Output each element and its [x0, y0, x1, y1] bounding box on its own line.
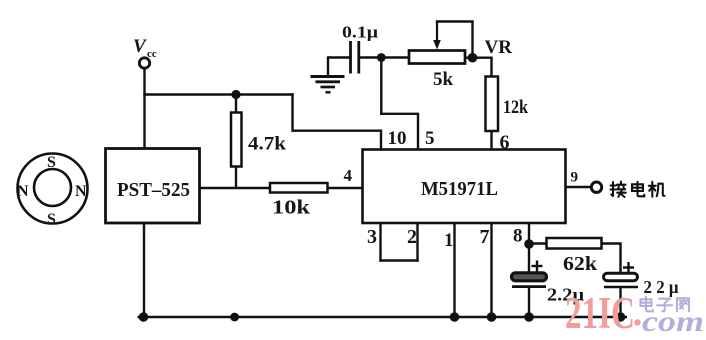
- wire 10k to pin 4: [328, 187, 363, 189]
- wire bus corner down: [291, 93, 293, 132]
- wire node A down: [380, 58, 382, 116]
- capacitor C1 0.1u: [342, 23, 378, 74]
- wire 4.7k top lead: [235, 95, 237, 114]
- svg-text:4.7k: 4.7k: [248, 134, 286, 155]
- wire pin 8 node to 62k: [529, 242, 547, 244]
- wire C1 left lead: [328, 56, 351, 58]
- resistor R1 4.7k: [231, 113, 286, 167]
- svg-text:5k: 5k: [433, 69, 454, 90]
- svg-text:3: 3: [367, 226, 377, 248]
- Vcc terminal: [133, 36, 157, 68]
- svg-text:2 2 μ: 2 2 μ: [644, 277, 679, 297]
- svg-text:PST–525: PST–525: [117, 179, 190, 201]
- junction pin 8 node: [524, 239, 534, 249]
- wire pin 5 drop: [417, 114, 419, 150]
- potentiometer VR 5k: [409, 22, 465, 91]
- svg-text:N: N: [17, 183, 29, 200]
- svg-text:4: 4: [344, 166, 353, 185]
- svg-text:5: 5: [425, 128, 435, 149]
- wire pin 8 drop: [528, 223, 530, 274]
- wire pin 9 lead: [566, 186, 592, 188]
- junction node A: [377, 53, 386, 62]
- svg-text:com: com: [642, 305, 704, 338]
- svg-text:62k: 62k: [563, 253, 598, 275]
- svg-text:1: 1: [444, 230, 454, 251]
- wire jog right to pin 5: [380, 113, 419, 115]
- capacitor C2 2.2u electrolytic: [512, 261, 585, 305]
- watermark 电子网: [641, 297, 690, 312]
- wire Vcc vertical to PST-525: [143, 68, 145, 150]
- svg-text:12k: 12k: [503, 97, 528, 118]
- watermark 21IC logo: [565, 288, 641, 338]
- svg-text:S: S: [47, 154, 56, 171]
- svg-text:M51971L: M51971L: [421, 178, 498, 200]
- wire wiper down to right terminal: [471, 22, 473, 58]
- wire PST-525 bottom to ground rail: [143, 223, 145, 318]
- 接: [611, 182, 626, 198]
- junction rail mid: [230, 313, 239, 322]
- 机: [649, 182, 665, 197]
- svg-text:cc: cc: [147, 48, 157, 60]
- wire 4.7k bottom lead: [235, 167, 237, 190]
- junction VR node: [468, 53, 478, 63]
- junction rail at pin 1: [450, 312, 460, 322]
- wire C1 right to node A to 5k: [359, 56, 410, 58]
- wire pin 2 drop: [416, 223, 418, 262]
- resistor R4 62k: [547, 238, 602, 275]
- wire pin 1 drop: [453, 223, 455, 317]
- wire 12k top lead: [490, 58, 492, 77]
- 电: [641, 297, 653, 312]
- 网: [677, 298, 689, 311]
- capacitor C3 2.2u electrolytic: [604, 262, 679, 297]
- svg-text:21IC: 21IC: [565, 288, 635, 338]
- label 接电机 (to motor): [611, 182, 665, 198]
- IC U2 M51971L: [363, 150, 566, 224]
- wire 62k right corner: [602, 242, 622, 244]
- svg-text:2: 2: [407, 226, 417, 248]
- wire pin 7 drop: [490, 223, 492, 317]
- wire 5k right to 12k corner: [465, 57, 493, 59]
- wire pin 3 to pin 2: [379, 259, 418, 261]
- ground: [311, 77, 345, 93]
- svg-text:N: N: [75, 183, 87, 200]
- svg-text:0.1μ: 0.1μ: [342, 23, 378, 42]
- wire wiper top: [436, 20, 474, 22]
- wire C2 bottom to rail: [528, 287, 530, 317]
- wire 12k bottom to pin 6: [490, 131, 492, 150]
- wire Vcc bus horizontal: [143, 93, 293, 95]
- junction rail at pin 7: [487, 312, 497, 322]
- wire pin 3 drop: [379, 223, 381, 262]
- wire pin 10 drop: [380, 131, 382, 150]
- 子: [657, 299, 672, 312]
- IC U1 PST-525 hall sensor: [106, 149, 200, 224]
- wire bus to pin 10: [293, 129, 383, 131]
- magnet rotor S-N poles: [17, 154, 88, 229]
- svg-text:V: V: [133, 36, 147, 57]
- svg-text:S: S: [47, 211, 56, 228]
- junction Vcc / 4.7k node: [231, 90, 240, 99]
- wire PST-525 to 10k: [200, 187, 272, 189]
- terminal to motor: [591, 182, 601, 192]
- junction rail at C2: [524, 312, 534, 322]
- wire C3 bottom to rail: [619, 287, 621, 317]
- ground rail wire: [138, 316, 628, 319]
- svg-text:10: 10: [388, 128, 407, 149]
- 电: [632, 182, 644, 197]
- svg-text:VR: VR: [485, 37, 513, 58]
- resistor R3 12k: [486, 77, 529, 132]
- resistor R2 10k: [270, 183, 328, 219]
- svg-text:7: 7: [480, 226, 490, 248]
- junction rail at C3: [616, 312, 626, 322]
- svg-text:8: 8: [513, 226, 523, 247]
- svg-text:10k: 10k: [272, 197, 311, 219]
- junction rail at PST-525: [139, 312, 149, 322]
- wire down to C3: [619, 244, 621, 275]
- wire ground drop: [327, 56, 329, 77]
- svg-text:9: 9: [571, 170, 579, 186]
